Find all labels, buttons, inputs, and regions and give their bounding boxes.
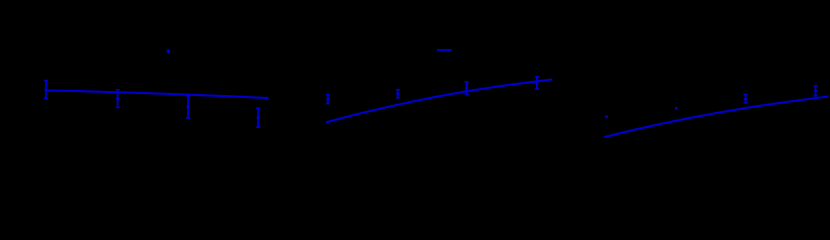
errorbar point 1 (left subplot) — [44, 81, 48, 99]
fit line (left subplot) — [46, 90, 269, 98]
errorbar point 3 (left subplot) — [186, 96, 190, 118]
errorbar point 4 (middle subplot) — [535, 77, 539, 89]
marker point 2 (right subplot) — [675, 107, 678, 110]
fit line (right subplot) — [605, 97, 829, 138]
errorbar point 4 (right subplot) — [813, 86, 817, 97]
errorbar point 4 (left subplot) — [256, 108, 260, 127]
errorbar point 2 (middle subplot) — [396, 90, 400, 98]
errorbar point 3 (middle subplot) — [465, 82, 469, 95]
errorbar point 2 (left subplot) — [116, 90, 120, 108]
legend marker sample (left subplot) — [167, 49, 170, 53]
fit line (middle subplot) — [326, 80, 552, 123]
marker point 1 (right subplot) — [605, 115, 608, 118]
errorbar point 1 (middle subplot) — [326, 95, 330, 104]
errorbar point 3 (right subplot) — [743, 95, 747, 103]
legend line sample (middle subplot) — [437, 49, 452, 51]
